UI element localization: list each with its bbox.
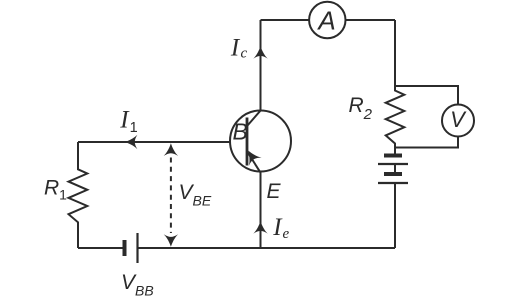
transistor Q1 base bar [246, 118, 249, 166]
svg-text:R2: R2 [349, 94, 373, 123]
svg-text:R1: R1 [44, 177, 67, 203]
battery B2 (right, two cells) [378, 156, 408, 184]
svg-text:e: e [283, 226, 290, 242]
resistor R1 (with vertical leads) [69, 142, 88, 248]
svg-text:A: A [316, 6, 335, 36]
node VBE dashed measurement line [170, 158, 172, 234]
resistor R2 [386, 88, 405, 156]
wire: top horizontal left segment to ammeter [261, 19, 310, 21]
svg-text:I: I [230, 35, 241, 62]
voltmeter V [442, 105, 474, 137]
wire: voltmeter bottom branch [395, 137, 458, 148]
wire: bottom horizontal right of battery VBB [138, 247, 396, 249]
wire: voltmeter top branch [395, 86, 458, 105]
transistor Q1 collector stroke [248, 110, 262, 126]
arrow Ic (collector current, pointing up) [253, 46, 267, 59]
arrow VBE bottom (pointing down) [164, 234, 178, 247]
wire: base horizontal wire [78, 141, 247, 143]
arrow VBE top (pointing up) [164, 143, 178, 156]
wire: right vertical upper (top corner to R2) [394, 20, 396, 91]
svg-text:E: E [267, 180, 282, 203]
wire: bottom horizontal left of battery VBB [78, 247, 125, 249]
transistor Q1 emitter arrowhead (pointing toward base) [242, 146, 262, 165]
svg-text:VBB: VBB [121, 271, 154, 299]
transistor Q1 emitter stroke [248, 153, 260, 173]
svg-text:c: c [241, 46, 248, 62]
transistor Q1 circle [230, 111, 291, 172]
wire: emitter vertical (transistor bottom to bottom wire) [260, 172, 262, 248]
svg-text:V: V [450, 107, 467, 132]
arrow Ie (emitter current, pointing up) [253, 221, 267, 234]
ammeter A [309, 2, 345, 38]
arrow I1 (current into base wire, pointing left) [125, 135, 138, 149]
svg-text:1: 1 [130, 120, 138, 136]
wire: collector vertical (transistor top to top-left corner) [260, 20, 262, 111]
svg-text:VBE: VBE [179, 181, 212, 209]
battery VBB [125, 233, 138, 263]
svg-text:B: B [233, 119, 248, 145]
wire: top horizontal right segment from ammeter to right corner [345, 19, 395, 21]
wire: right vertical lower (battery to bottom corner) [394, 183, 396, 248]
